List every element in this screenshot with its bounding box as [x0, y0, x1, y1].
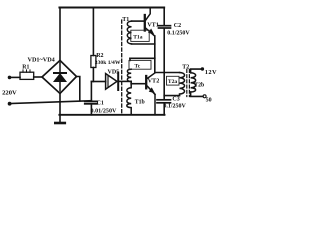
wire VT2 base: [131, 83, 145, 85]
winding T1b: [127, 84, 131, 115]
transformer T2 core: [187, 70, 190, 97]
svg-text:0.1/250V: 0.1/250V: [163, 104, 186, 110]
capacitor C1: [85, 101, 97, 103]
wire R2 top column: [92, 8, 94, 56]
wire bridge top column: [59, 8, 61, 61]
terminal 50: [203, 95, 206, 98]
svg-text:C3: C3: [172, 97, 179, 103]
wire C2 C3 column: [163, 28, 165, 99]
wire T2b top to 12V: [191, 69, 201, 73]
wire input bottom: [10, 101, 92, 104]
svg-text:50: 50: [206, 97, 212, 103]
svg-text:T2a: T2a: [168, 79, 178, 85]
svg-text:0.1/250V: 0.1/250V: [167, 30, 190, 36]
svg-text:C2: C2: [174, 23, 181, 29]
winding Tc: [127, 69, 131, 81]
svg-text:220V: 220V: [2, 90, 17, 97]
wire VD5 cathode: [119, 80, 131, 82]
winding T1a: [127, 21, 131, 44]
svg-text:T1a: T1a: [133, 35, 143, 41]
wire input top lead: [10, 76, 21, 78]
wire R2 bottom to VD5: [92, 68, 94, 82]
svg-text:R2: R2: [96, 53, 103, 59]
wire C2 top lead: [163, 8, 165, 26]
svg-text:VT1: VT1: [147, 21, 159, 28]
wire top rail: [59, 7, 164, 9]
capacitor C3: [157, 100, 171, 103]
wire T2b bottom to 50: [191, 92, 203, 96]
svg-text:VD1~VD4: VD1~VD4: [28, 56, 55, 63]
wire bridge right lead: [77, 77, 80, 101]
wire R1 to bridge: [34, 76, 43, 78]
wire midpoint to T2a: [155, 72, 180, 74]
svg-text:T2: T2: [182, 65, 189, 71]
wire node R2 C1 VD5: [91, 81, 105, 83]
label box T1a: [131, 30, 149, 41]
svg-text:12V: 12V: [205, 69, 217, 76]
wire Tc bottom to base node: [130, 81, 132, 83]
svg-text:C1: C1: [97, 101, 104, 107]
svg-text:0.01/250V: 0.01/250V: [91, 109, 117, 115]
winding T2a: [180, 73, 185, 96]
wire Tc top: [130, 57, 155, 59]
svg-text:VD5: VD5: [108, 69, 120, 75]
diode VD5: [106, 73, 119, 90]
svg-text:330k 1/4W: 330k 1/4W: [95, 60, 121, 66]
terminal input top dot: [8, 76, 12, 80]
wire midpoint column: [154, 36, 156, 73]
svg-text:Tc: Tc: [135, 63, 141, 69]
bridge rectifier VD1~VD4: [42, 60, 77, 93]
wire C1 bottom lead: [90, 104, 92, 115]
transistor VT2: [146, 73, 155, 115]
svg-text:T2b: T2b: [194, 82, 204, 88]
ground bar: [55, 122, 65, 125]
terminal 12V: [201, 67, 204, 70]
resistor R2: [91, 56, 96, 68]
svg-text:T1: T1: [122, 17, 129, 23]
label box T2a: [167, 76, 180, 85]
transistor VT1: [145, 8, 155, 37]
svg-text:VT2: VT2: [148, 78, 160, 85]
wire C3 bottom lead: [163, 103, 165, 115]
svg-text:T1b: T1b: [135, 100, 145, 106]
svg-text:R1: R1: [22, 64, 29, 70]
wire C1 top lead: [90, 82, 92, 102]
capacitor C2: [159, 26, 171, 28]
label box Tc: [129, 60, 151, 69]
wire T2a bottom: [164, 95, 179, 97]
wire T1a bottom to midpoint: [132, 43, 155, 45]
wire T1a top to VT1 base: [132, 20, 144, 22]
resistor R1: [20, 72, 34, 79]
wire Tc top lead: [129, 58, 131, 60]
terminal input bottom dot: [8, 102, 12, 106]
winding T2b: [191, 73, 196, 92]
wire bridge bottom column: [59, 94, 61, 124]
wire bottom rail: [59, 114, 164, 116]
transformer T1 core: [121, 20, 123, 113]
